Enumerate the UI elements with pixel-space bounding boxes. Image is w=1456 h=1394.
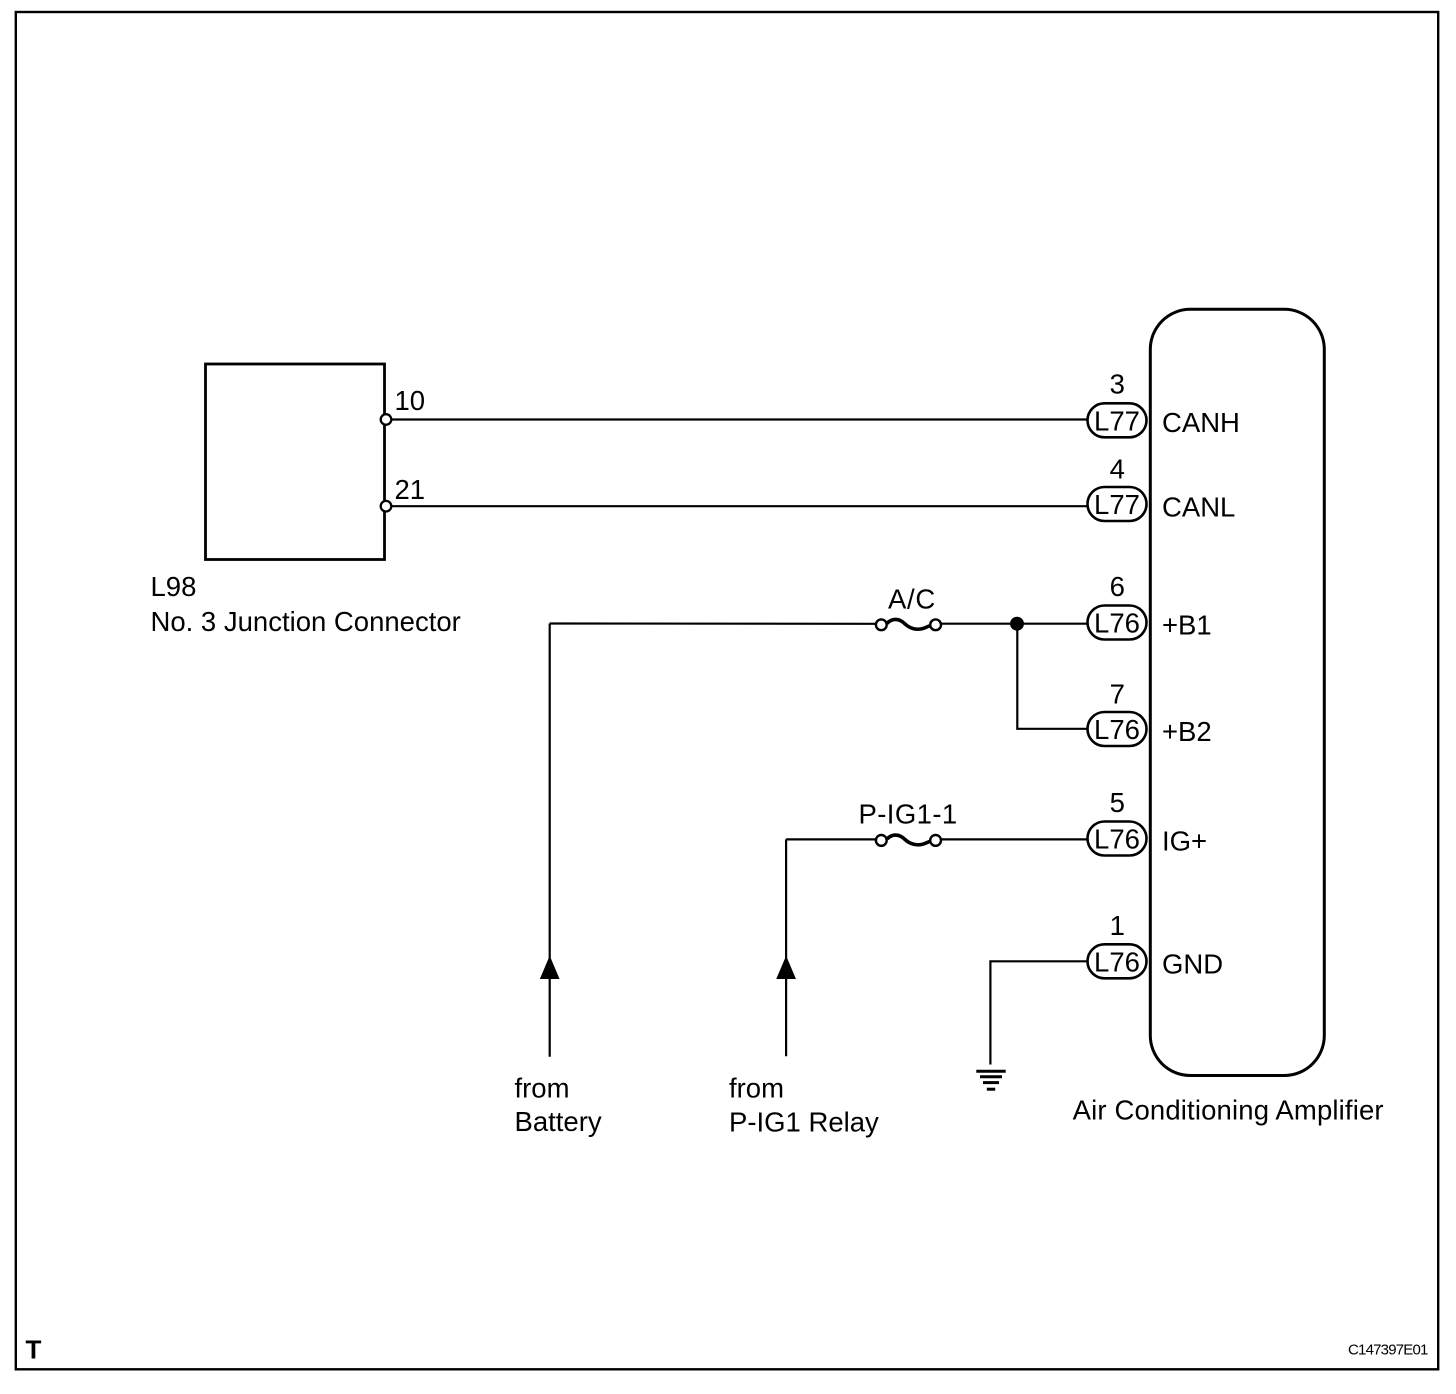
L98 pin 10 terminal [381,414,392,425]
wire P-IG1-1 fuse to IG+ pin [941,838,1089,840]
svg-text:1: 1 [1110,910,1125,941]
svg-text:L77: L77 [1094,405,1140,436]
svg-text:CANH: CANH [1162,407,1240,438]
svg-text:L98: L98 [151,571,197,602]
ground symbol [976,1071,1005,1089]
svg-text:from: from [515,1072,570,1103]
svg-text:3: 3 [1110,369,1125,400]
svg-text:L77: L77 [1094,489,1140,520]
connector pin L76 pin 7 [1088,712,1147,746]
svg-text:C147397E01: C147397E01 [1348,1342,1428,1359]
svg-text:CANL: CANL [1162,492,1235,523]
label from Battery [515,1072,602,1137]
battery feed riser wire [549,624,551,1057]
svg-text:from: from [729,1072,784,1103]
svg-text:10: 10 [395,385,426,416]
P-IG1 relay feed arrow [777,957,795,979]
svg-text:No. 3 Junction Connector: No. 3 Junction Connector [151,606,461,637]
wire branch down to +B2 [1017,624,1089,729]
wire +B1 from battery riser to A/C fuse [550,622,876,624]
svg-text:T: T [26,1335,42,1365]
svg-text:21: 21 [395,474,426,505]
battery feed arrow [541,957,559,979]
svg-text:GND: GND [1162,948,1223,979]
fuse P-IG1-1 [876,835,941,846]
svg-text:+B2: +B2 [1162,716,1212,747]
wire CANL (L98 pin 21 to L77 pin 4) [386,505,1089,507]
svg-text:6: 6 [1110,571,1125,602]
connector pin L77 pin 4 [1088,487,1147,521]
label from P-IG1 Relay [729,1072,879,1137]
svg-text:Battery: Battery [515,1106,602,1137]
svg-text:L76: L76 [1094,824,1140,855]
svg-text:A/C: A/C [888,584,936,615]
connector pin L76 pin 1 [1088,944,1147,978]
P-IG1 relay feed riser wire [785,839,787,1056]
svg-text:+B1: +B1 [1162,610,1212,641]
connector pin L76 pin 6 [1088,606,1147,640]
svg-text:4: 4 [1110,453,1125,484]
wire IG+ left segment from riser corner to fuse [786,838,876,840]
fuse A/C [876,619,941,630]
junction connector L98 box [206,364,385,560]
junction node +B1/+B2 branch [1011,618,1023,630]
connector pin L76 pin 5 [1088,822,1147,856]
svg-text:L76: L76 [1094,714,1140,745]
amplifier outline [1150,309,1324,1075]
wire GND pin to ground [990,961,1089,1064]
svg-text:5: 5 [1110,787,1125,818]
svg-text:L76: L76 [1094,946,1140,977]
svg-text:Air Conditioning Amplifier: Air Conditioning Amplifier [1073,1095,1384,1126]
svg-text:P-IG1 Relay: P-IG1 Relay [729,1107,879,1138]
L98 pin 21 terminal [381,501,392,512]
svg-text:L76: L76 [1094,608,1140,639]
wire CANH (L98 pin 10 to L77 pin 3) [386,418,1089,420]
svg-text:IG+: IG+ [1162,826,1207,857]
svg-text:P-IG1-1: P-IG1-1 [859,798,958,829]
svg-text:7: 7 [1110,679,1125,710]
wire A/C fuse to +B1 pin [941,623,1089,625]
connector pin L77 pin 3 [1088,403,1147,437]
